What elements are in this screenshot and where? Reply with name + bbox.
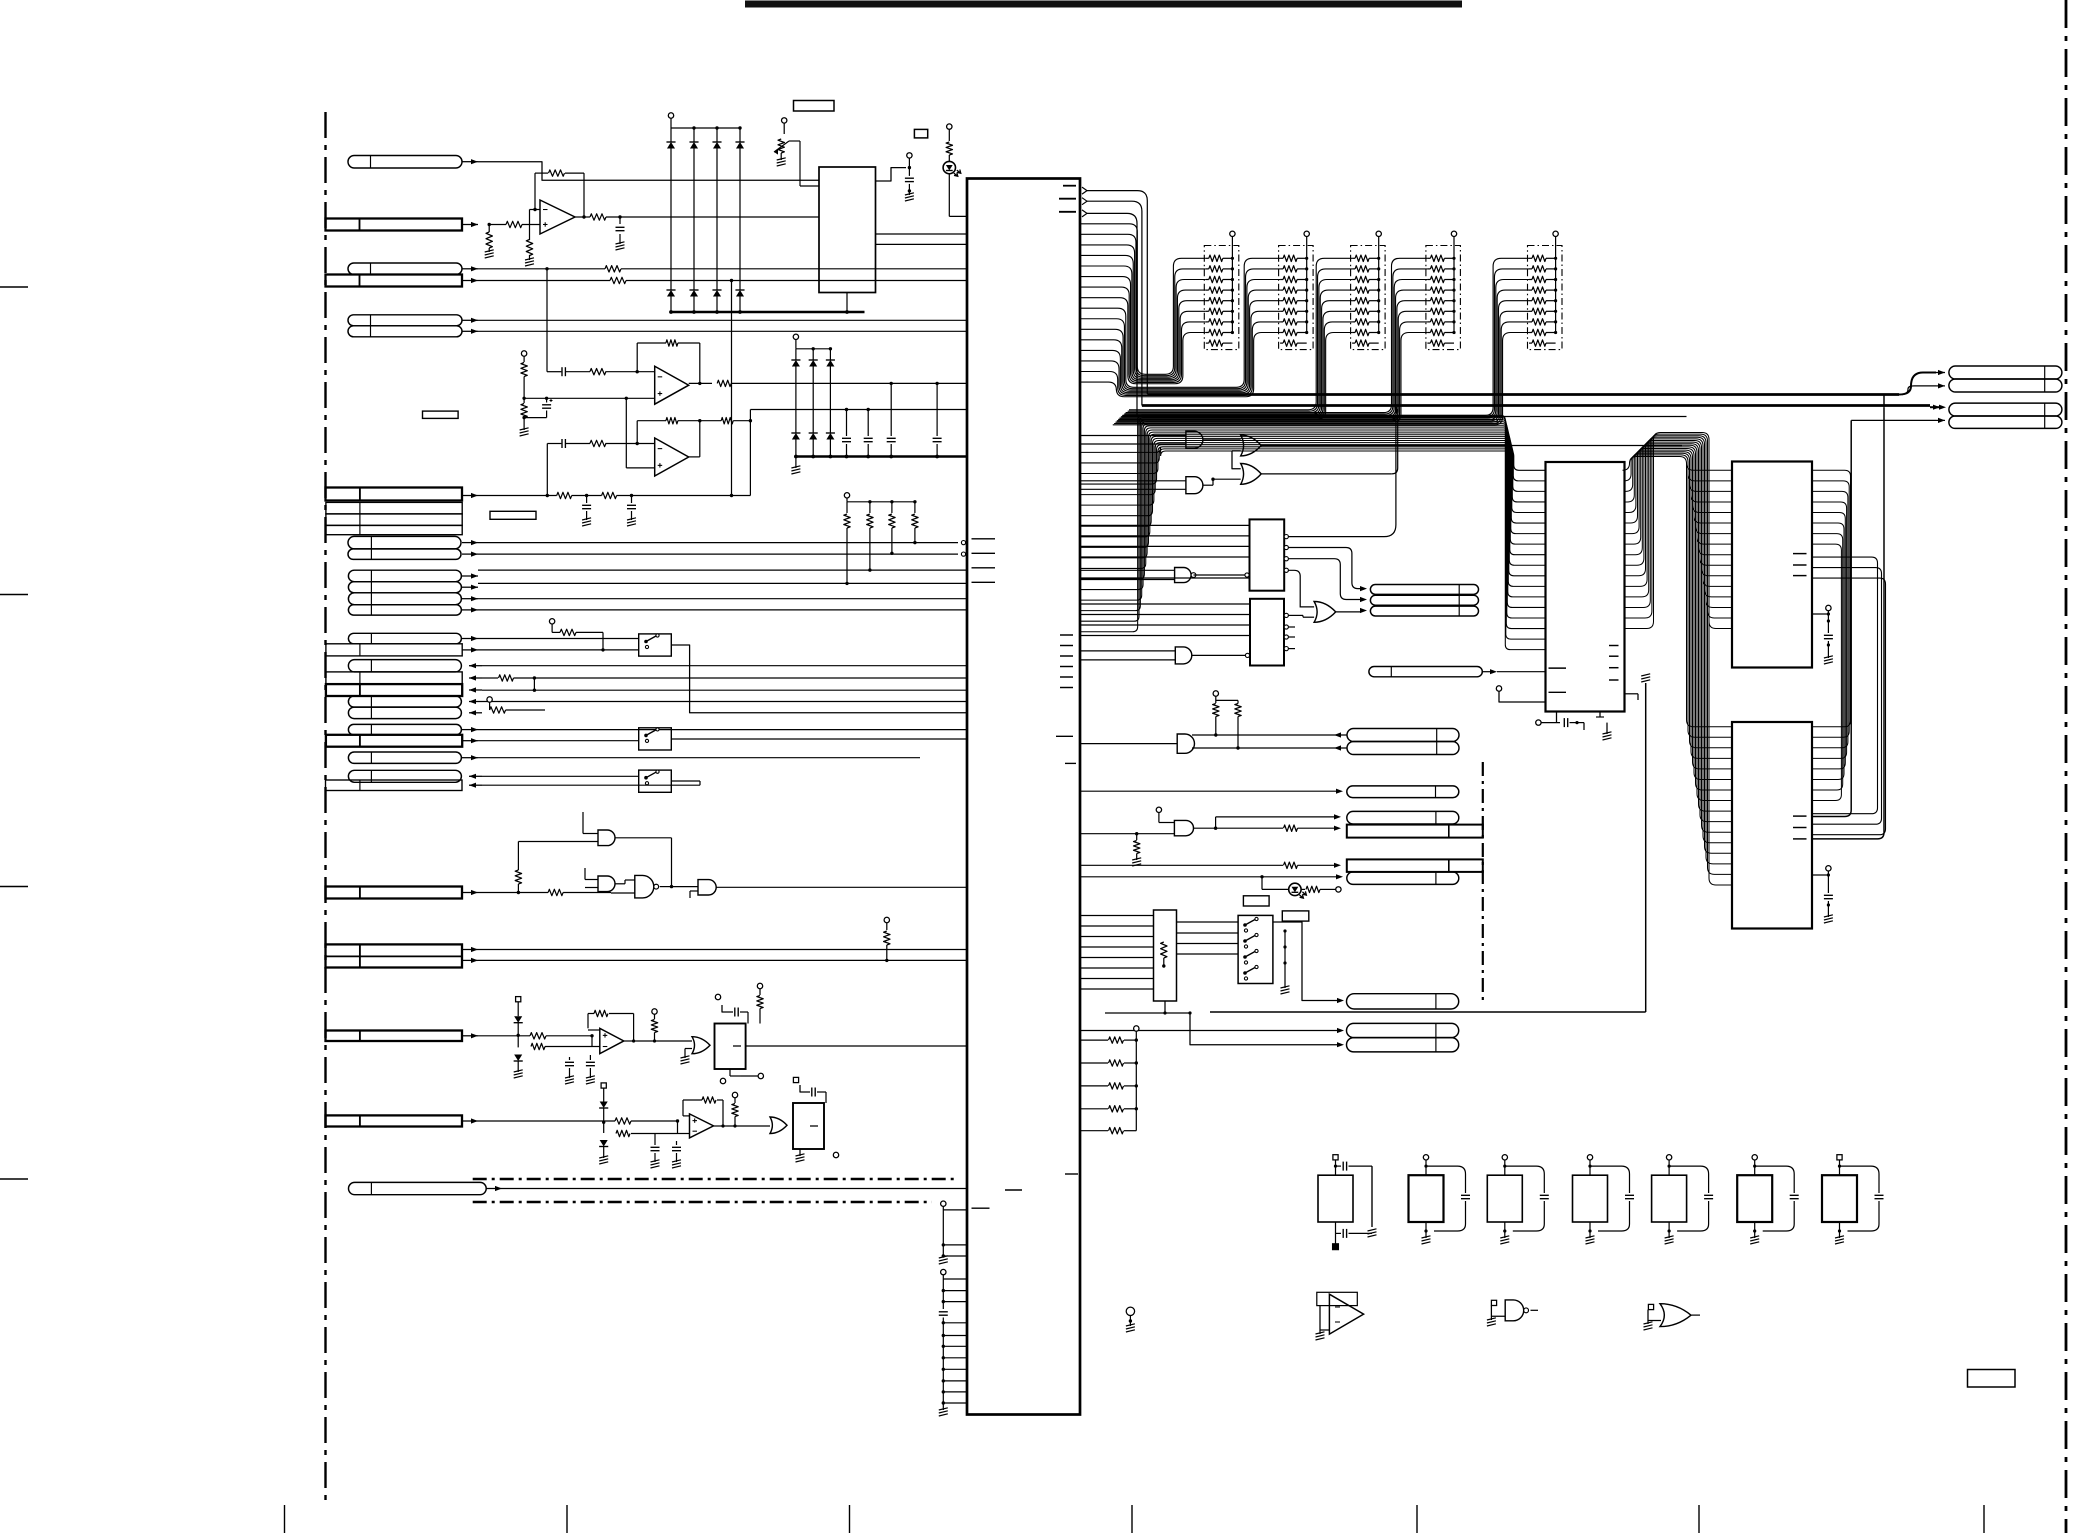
IC U4 RAM [1732, 462, 1812, 668]
U4 left pin taps [1687, 463, 1733, 628]
AND gate G7 [1186, 431, 1203, 448]
block B5 [793, 1103, 824, 1149]
filter riser [749, 410, 967, 496]
connector J18 [326, 644, 462, 656]
crystal circuit X1 [1318, 1155, 1377, 1250]
filter cap 1 [582, 496, 591, 527]
U3A feedback [588, 1010, 637, 1042]
AND gate G12 [1080, 647, 1250, 664]
wire A3 [478, 266, 967, 272]
connector J32 [326, 1115, 463, 1126]
resistor network RN3 [1351, 231, 1386, 350]
B3-SB1 wires [1177, 922, 1239, 954]
arrow [462, 159, 478, 164]
rect P13 [1347, 825, 1483, 838]
bus C [1137, 416, 1687, 418]
connector J8 [326, 502, 462, 534]
SW3 out [482, 781, 700, 785]
NAND gate G16 [1487, 1300, 1538, 1326]
IC U2 servo driver [819, 167, 876, 293]
plus rail [522, 397, 654, 400]
arrow [462, 727, 478, 732]
wire C6 [482, 701, 967, 703]
G7 out [1203, 439, 1241, 441]
connector pill J33 [349, 1182, 487, 1194]
arrow [462, 552, 478, 557]
sq terminal [601, 1083, 606, 1095]
B4 top res [757, 983, 763, 1023]
wire C5 [482, 689, 967, 691]
op-amp U2B [655, 366, 689, 404]
B2 out wires [1288, 615, 1314, 648]
left border dash-dot line [324, 112, 326, 1500]
connector J10 [326, 525, 462, 534]
B1 out pins [1284, 535, 1288, 573]
OR gate G5 [692, 1037, 710, 1054]
B4 out [746, 1045, 967, 1047]
arrow [462, 647, 478, 652]
connector pill J16 [348, 605, 461, 615]
LED D9 [1262, 883, 1341, 898]
U1 pin marks bottom [972, 1174, 1079, 1208]
LED D5 [943, 124, 967, 216]
wire bundle run to RN3 [1120, 258, 1353, 419]
arrow [462, 755, 478, 760]
wire to P9 [1192, 732, 1347, 737]
bus y1012 [1210, 674, 1650, 1012]
arrow [462, 1118, 478, 1123]
label box [490, 511, 536, 519]
pill P11 [1347, 786, 1459, 798]
wire A4 drop [730, 281, 733, 498]
bus A riser [1087, 191, 1147, 395]
sq terminal [516, 997, 521, 1009]
B1 out2 [1288, 548, 1367, 592]
G9 in2 [1203, 478, 1241, 486]
connector pill J15 [348, 593, 461, 605]
wire [478, 542, 958, 544]
AND gate G14 [1177, 734, 1194, 753]
U2C feedback [637, 418, 750, 444]
B3 input wires [1080, 916, 1154, 990]
U3B caps [651, 1134, 682, 1169]
U5 inner marks [1793, 816, 1807, 839]
diode array D6-D8 [791, 334, 835, 458]
wire bundle run to RN5 [1113, 258, 1529, 425]
pill P15 [1347, 872, 1459, 885]
left fold tick marks [0, 287, 28, 1179]
pill P6 [1949, 379, 2062, 392]
terminal [1496, 686, 1545, 702]
switch box SB1 [1238, 915, 1273, 983]
connector pill J12 [348, 549, 461, 560]
connector pill J13 [348, 570, 461, 582]
resistor network RN4 [1426, 231, 1461, 350]
G7 inputs [1080, 436, 1186, 445]
arrow [462, 540, 478, 545]
pill P7 [1949, 403, 2062, 416]
U1 pin marks right mid [1056, 736, 1076, 763]
label box [1243, 896, 1269, 906]
terminal res 2 [732, 1092, 738, 1127]
arrow [462, 947, 478, 952]
arrow [469, 774, 482, 779]
B1 out4 [1288, 570, 1314, 607]
vert stub [1883, 395, 1885, 408]
wire [478, 582, 967, 584]
crystal circuit X7 [1822, 1155, 1884, 1244]
connector pill J24 [348, 724, 461, 734]
arrow [462, 329, 478, 334]
wire [478, 729, 967, 731]
wire A4 [478, 277, 967, 283]
pull resistors R20-R23 [844, 493, 918, 586]
wire [482, 775, 639, 777]
J33 wire [502, 1188, 967, 1190]
arrow [462, 222, 478, 227]
U3B out [727, 1125, 770, 1127]
wire [478, 598, 967, 600]
vertical wire from A3 [545, 267, 548, 372]
U4-U5 lower wire link [1812, 557, 1886, 835]
U2C input cap+res [547, 439, 654, 496]
G10 out [1203, 479, 1213, 485]
B1 out3 [1288, 559, 1367, 602]
arrow [469, 663, 482, 668]
bias resistors [520, 351, 529, 436]
resistor network RN2 [1279, 231, 1314, 350]
connector J4 [326, 275, 463, 287]
connector J31 [326, 1031, 463, 1042]
wire [478, 740, 639, 742]
wire opamp out [575, 214, 819, 220]
arrow [462, 278, 478, 283]
label box [423, 411, 459, 418]
G14 left wire [1080, 743, 1177, 745]
U3 right pin stub [1625, 694, 1639, 700]
res pair [1213, 691, 1242, 750]
NAND gate G3 [635, 875, 659, 898]
wire into P7 [1930, 405, 1946, 410]
bus under diodes [671, 311, 865, 314]
G15 in [1156, 807, 1174, 822]
OR gate G17 [1644, 1304, 1701, 1330]
block B2 decoder [1250, 599, 1284, 666]
dash-dot shield line vertical [1482, 762, 1484, 1002]
U2 right wires [876, 234, 968, 244]
terminal res [651, 1009, 657, 1043]
G9 out long [1261, 409, 1398, 474]
arrow [462, 266, 478, 271]
B5 top cap [793, 1077, 826, 1103]
IC U1 main microcontroller [967, 179, 1080, 1415]
bus B thick2 [1142, 404, 1930, 407]
wire res to P14 [1080, 862, 1341, 868]
arrow [462, 890, 478, 895]
connector pill J17 [348, 633, 461, 644]
IC U3 driver [1546, 462, 1625, 712]
J31 wire [478, 1033, 594, 1039]
U3A minus res [519, 1036, 600, 1050]
U3 inner marks [1549, 646, 1619, 693]
J29 wire [478, 889, 611, 895]
connector pill J6 [348, 326, 462, 337]
block B4 comparator [715, 1024, 746, 1070]
op-amp U2C [655, 438, 689, 476]
B4 bottom pins [720, 1069, 763, 1084]
wire [478, 757, 920, 759]
pill P12 [1347, 811, 1459, 824]
buffer U6 [1316, 1292, 1364, 1340]
J30 wires [478, 950, 967, 961]
wire bundle U1 to RN1 [1080, 224, 1206, 384]
diode pair [514, 1009, 523, 1078]
connector pill J26 [348, 752, 461, 763]
connector J21 [326, 684, 462, 696]
connector pill J3 [348, 263, 462, 275]
wire vbus2 [1812, 407, 1884, 839]
bus thick [791, 457, 967, 475]
wire [478, 569, 967, 571]
resistor ladder R30-34 [1080, 1026, 1139, 1134]
OR gate G9 [1241, 464, 1262, 485]
pill P3 [1370, 606, 1478, 616]
arrow [486, 1186, 502, 1191]
wire into P6 [1902, 383, 1945, 394]
bus B riser [1087, 201, 1142, 405]
wire [478, 609, 967, 611]
wire to P11 [1080, 789, 1343, 794]
AND gate G2 [598, 876, 615, 892]
arrow [462, 958, 478, 963]
pill P2 [1370, 595, 1478, 605]
U1 pin marks left mid [972, 539, 996, 583]
bottom tick marks [285, 1505, 1985, 1533]
vertical link [761, 645, 763, 730]
res stub [1132, 832, 1141, 866]
wire [478, 553, 958, 555]
right border dash-dot line [2065, 0, 2068, 1533]
arrow [462, 738, 478, 743]
arrow [462, 318, 478, 323]
connector pill J19 [348, 660, 461, 672]
pill P10 [1347, 742, 1459, 755]
G15 in2 wire [1080, 833, 1174, 835]
B2 input wires [1080, 604, 1250, 636]
U2B out resistor [689, 380, 967, 386]
connector J28 [326, 780, 463, 791]
U2C out [689, 421, 700, 457]
op-amp U3B [690, 1114, 714, 1138]
U1 pin tick marks right [1060, 635, 1073, 688]
bus B thick [1142, 406, 1930, 408]
wire A6 [478, 330, 967, 332]
wire J7 RC [478, 492, 750, 498]
connector pill J22 [348, 696, 461, 707]
U5 right chain [1812, 866, 1833, 923]
U1 service pins lower [939, 1269, 967, 1416]
SW2 out [671, 738, 967, 740]
wire C4 res [482, 675, 967, 681]
connector J20 [326, 672, 462, 684]
AND gate G15 [1174, 820, 1193, 835]
U2 bottom stub [845, 293, 849, 314]
minus input rail resistor [525, 210, 540, 267]
U4 right chain [1812, 605, 1833, 664]
op-amp U3A [600, 1028, 624, 1053]
pill P17 [1347, 1023, 1459, 1037]
U3A out [637, 1040, 692, 1042]
arrow [469, 675, 482, 680]
G13 out [1336, 608, 1367, 613]
filter cap 2 [627, 496, 636, 527]
mux SW1 [639, 634, 672, 656]
B1 out1 [1288, 407, 1396, 537]
G3 input2 [611, 892, 635, 894]
connector pill J27 [348, 770, 461, 782]
arrow [462, 493, 478, 498]
op-amp U2A [540, 200, 575, 234]
U3A caps [565, 1047, 595, 1085]
wire A1 [478, 162, 819, 181]
arrow [462, 585, 478, 590]
label box [1282, 911, 1309, 921]
pot VR1 [774, 118, 819, 186]
feedback resistor [533, 170, 585, 219]
dash-dot net line lower [473, 1201, 932, 1204]
AND gate G10 [1186, 477, 1203, 494]
pill P5 [1949, 366, 2062, 379]
U4 inner marks [1793, 554, 1807, 576]
wire B3 bottom [1105, 1001, 1192, 1015]
cap bank C10-C13 [842, 382, 942, 459]
connector J29 [326, 887, 463, 899]
arrow [462, 1033, 478, 1038]
bottom terminal [1126, 1307, 1135, 1332]
U3B feedback [683, 1097, 727, 1128]
J32 wire [478, 1118, 679, 1124]
connector pill J1 [348, 156, 462, 169]
crystal circuit X2 [1409, 1155, 1471, 1244]
title bar [745, 1, 1462, 8]
wire bundle U1 to RN2 [1080, 258, 1280, 396]
pill P1 [1370, 585, 1478, 595]
G1 inputs [518, 812, 598, 842]
U1 service pins upper [939, 1201, 967, 1264]
pill P9 [1347, 729, 1459, 742]
AND gate G1 [598, 830, 615, 846]
G2 inputs [585, 868, 598, 888]
G8 out long [1261, 445, 1682, 447]
arrow [469, 699, 482, 704]
right res stub [884, 917, 890, 962]
connector J25 [326, 735, 462, 747]
wire to P18 [1190, 1013, 1344, 1047]
diode array D1-D4 [666, 113, 744, 314]
G5 in2 [681, 1049, 693, 1065]
wire [482, 784, 700, 786]
arrow [462, 596, 478, 601]
arrow [462, 636, 478, 641]
G10 inputs [1080, 481, 1186, 490]
bus A into P5 [1899, 370, 1945, 395]
J29 riser res [515, 842, 521, 893]
terminal+res [549, 619, 604, 652]
label box [914, 129, 927, 138]
B1 input wires [1080, 525, 1250, 578]
G1 out [615, 838, 672, 887]
mux SW3 [639, 770, 672, 792]
connector J9 [326, 514, 462, 526]
G8 in2 [1232, 451, 1241, 469]
B5 misc [796, 1149, 839, 1162]
OR gate G13 [1314, 602, 1336, 623]
crystal circuit X4 [1573, 1155, 1635, 1244]
diode pair [599, 1095, 608, 1164]
label box [1968, 1370, 2016, 1388]
U3B plus [678, 1120, 690, 1122]
wire vbus1 [1812, 420, 1851, 816]
arrow [462, 607, 478, 612]
U2B input cap+res [547, 367, 655, 376]
bias cap [524, 398, 552, 417]
U2 top-right cap chain [876, 153, 914, 201]
bus A thick [1147, 393, 1899, 396]
U1 pin marks top right [1059, 186, 1076, 212]
arrow P17 [1337, 1028, 1344, 1033]
crystal circuit X3 [1487, 1155, 1549, 1244]
pill P16 [1347, 994, 1459, 1009]
pill P18 [1347, 1038, 1459, 1052]
U3-U4-U5 wire bus bundle [1623, 433, 1733, 885]
wire into P8 [1851, 418, 1945, 423]
SW1 out [671, 645, 967, 713]
input resistor [488, 221, 541, 227]
mux SW2 [639, 728, 672, 750]
crystal circuit X6 [1737, 1155, 1799, 1244]
G3 out [660, 885, 698, 888]
pill P8 [1949, 416, 2062, 428]
pin circles [961, 541, 965, 557]
terminal res pair [487, 697, 545, 713]
OR gate G6 [770, 1117, 787, 1134]
wire to P17 [1080, 1030, 1338, 1032]
AND gate G4 [698, 880, 716, 895]
wire C3 [482, 665, 967, 667]
dash-dot net line upper [473, 1178, 958, 1181]
arrow [469, 783, 482, 788]
wire to P15 [1080, 874, 1343, 889]
resistor network RN5 [1528, 231, 1563, 350]
wire SB1 to P16 [1273, 922, 1344, 1003]
arrow [469, 710, 482, 715]
wire C1 [478, 638, 639, 640]
U3 left pin bundle [1080, 415, 1546, 649]
B3 inner res [1161, 942, 1167, 968]
OR gate G8 [1241, 435, 1262, 456]
arrow [462, 573, 478, 578]
U1 pin open arrows [1082, 187, 1087, 217]
connector pill J11 [348, 536, 461, 549]
G4 out [716, 886, 967, 888]
bus C riser [1087, 213, 1137, 416]
arrow [469, 687, 482, 692]
connector J2 [326, 219, 463, 231]
connector pill J5 [348, 315, 462, 326]
IC U5 RAM [1732, 722, 1812, 929]
G15 out [1194, 814, 1342, 830]
block B1 decoder [1250, 519, 1285, 590]
